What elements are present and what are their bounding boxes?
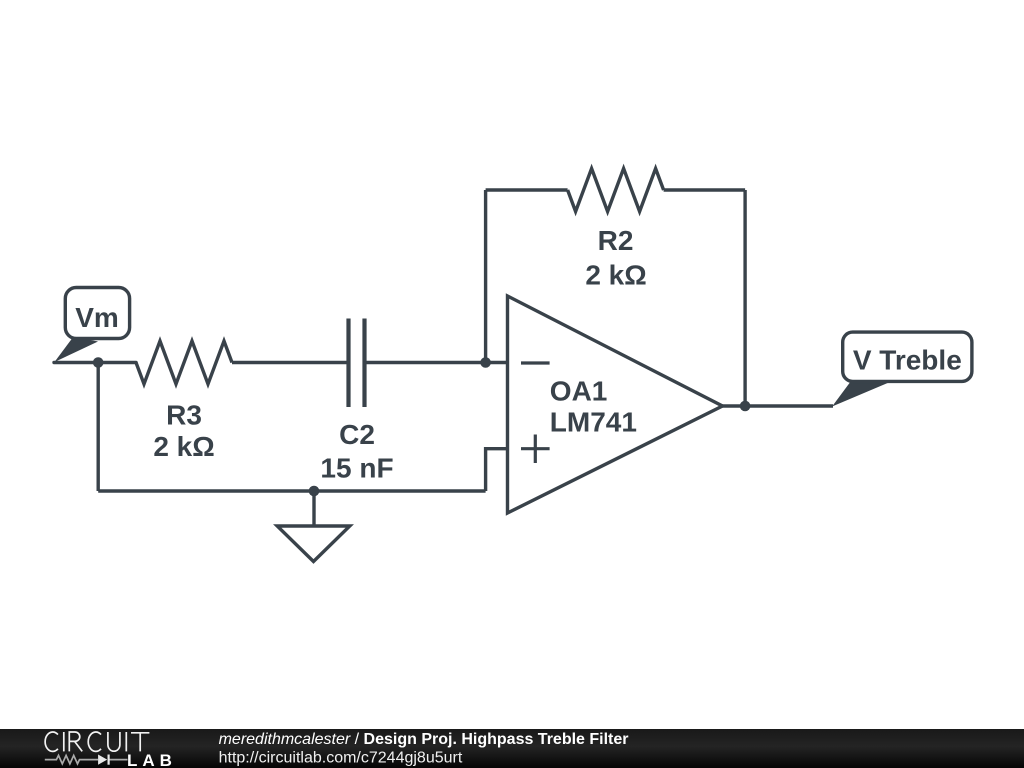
label R3 value <box>153 400 214 463</box>
svg-text:2 kΩ: 2 kΩ <box>153 431 214 462</box>
wire: input net horizontal (Vm to R3) <box>54 361 136 364</box>
node: output junction dot <box>740 401 751 412</box>
resistor R2 <box>568 169 664 212</box>
node: input junction dot <box>93 357 104 368</box>
wire: feedback left vertical <box>484 190 487 363</box>
resistor R3 <box>136 341 232 384</box>
label OA1 LM741 <box>550 376 637 438</box>
node: inverting input junction dot <box>480 357 491 368</box>
wire: bottom horizontal net <box>98 489 485 492</box>
wire: feedback top-left horizontal <box>486 188 568 191</box>
svg-text:R3: R3 <box>166 400 202 431</box>
flag Vm <box>55 288 130 363</box>
svg-text:OA1: OA1 <box>550 376 608 407</box>
ground <box>277 491 350 562</box>
op-amp minus symbol <box>521 361 550 364</box>
flag V Treble <box>832 332 972 406</box>
svg-text:C2: C2 <box>339 419 375 450</box>
svg-text:http://circuitlab.com/c7244gj8: http://circuitlab.com/c7244gj8u5urt <box>219 750 463 767</box>
label C2 value <box>320 419 393 484</box>
node: ground junction dot <box>309 486 320 497</box>
logo diode symbol <box>98 755 109 765</box>
wire: output <box>723 404 834 407</box>
op-amp OA1 triangle <box>508 296 723 513</box>
svg-text:15 nF: 15 nF <box>320 453 393 484</box>
svg-text:2 kΩ: 2 kΩ <box>585 260 646 291</box>
label R2 value <box>585 225 646 291</box>
wire: non-inverting input step <box>486 449 508 491</box>
svg-text:R2: R2 <box>598 225 634 256</box>
svg-text:Vm: Vm <box>75 302 119 333</box>
svg-text:V Treble: V Treble <box>853 345 962 376</box>
svg-text:LAB: LAB <box>127 751 177 768</box>
logo resistor-diode icon <box>45 755 128 763</box>
wire: feedback top-right horizontal <box>664 188 746 191</box>
svg-text:meredithmcalester / Design Pro: meredithmcalester / Design Proj. Highpas… <box>219 731 629 748</box>
svg-text:LM741: LM741 <box>550 406 637 437</box>
wire: C2 to inverting input <box>367 361 508 364</box>
logo CIRCUIT <box>45 732 149 751</box>
capacitor C2 <box>349 319 365 408</box>
wire: left vertical from input node down <box>96 363 99 492</box>
op-amp plus symbol <box>521 435 550 464</box>
wire: R3 to C2 <box>232 361 347 364</box>
wire: feedback right vertical <box>743 190 746 406</box>
